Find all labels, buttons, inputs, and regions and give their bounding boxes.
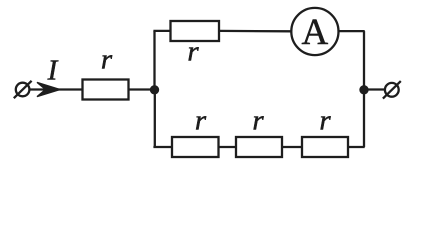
node B (right junction dot) xyxy=(360,86,368,94)
resistor R1 xyxy=(83,80,129,100)
resistor R3 (bottom branch left) xyxy=(172,137,219,157)
wire: R2 to ammeter xyxy=(219,30,292,33)
resistor R4 (bottom branch middle) xyxy=(236,137,282,157)
wire: node B to right terminal xyxy=(364,88,385,90)
wire: R1 to node A xyxy=(129,88,155,90)
wire: node A down to bottom branch xyxy=(154,90,156,148)
svg-text:r: r xyxy=(319,105,331,137)
wire: bottom-right corner up to node B xyxy=(363,90,365,148)
wire: node A up to top branch xyxy=(153,31,155,90)
wire: ammeter to top-right corner xyxy=(339,30,365,32)
terminal right (open circle with slash) xyxy=(383,81,401,99)
wire: left terminal to resistor R1 xyxy=(30,88,83,90)
svg-text:I: I xyxy=(47,55,59,87)
resistor R5 (bottom branch right) xyxy=(302,137,348,157)
wire: top-right corner down to node B xyxy=(363,31,365,89)
svg-text:r: r xyxy=(252,105,264,137)
current arrow I xyxy=(37,82,60,96)
wire: top-left corner to resistor R2 xyxy=(153,30,170,32)
svg-text:r: r xyxy=(195,105,207,137)
terminal left (open circle with slash) xyxy=(14,81,32,98)
resistor R2 (top branch) xyxy=(171,21,220,41)
wire: bottom-left corner to resistor R3 xyxy=(153,146,172,148)
wire: R3 to R4 xyxy=(219,146,237,148)
wire: R5 to bottom-right corner xyxy=(348,146,365,148)
svg-text:A: A xyxy=(302,12,329,53)
node A (left junction dot) xyxy=(150,86,158,94)
svg-text:r: r xyxy=(101,44,113,76)
wire: R4 to R5 xyxy=(282,146,302,148)
svg-text:r: r xyxy=(187,36,199,68)
ammeter U1 circle xyxy=(291,8,338,55)
